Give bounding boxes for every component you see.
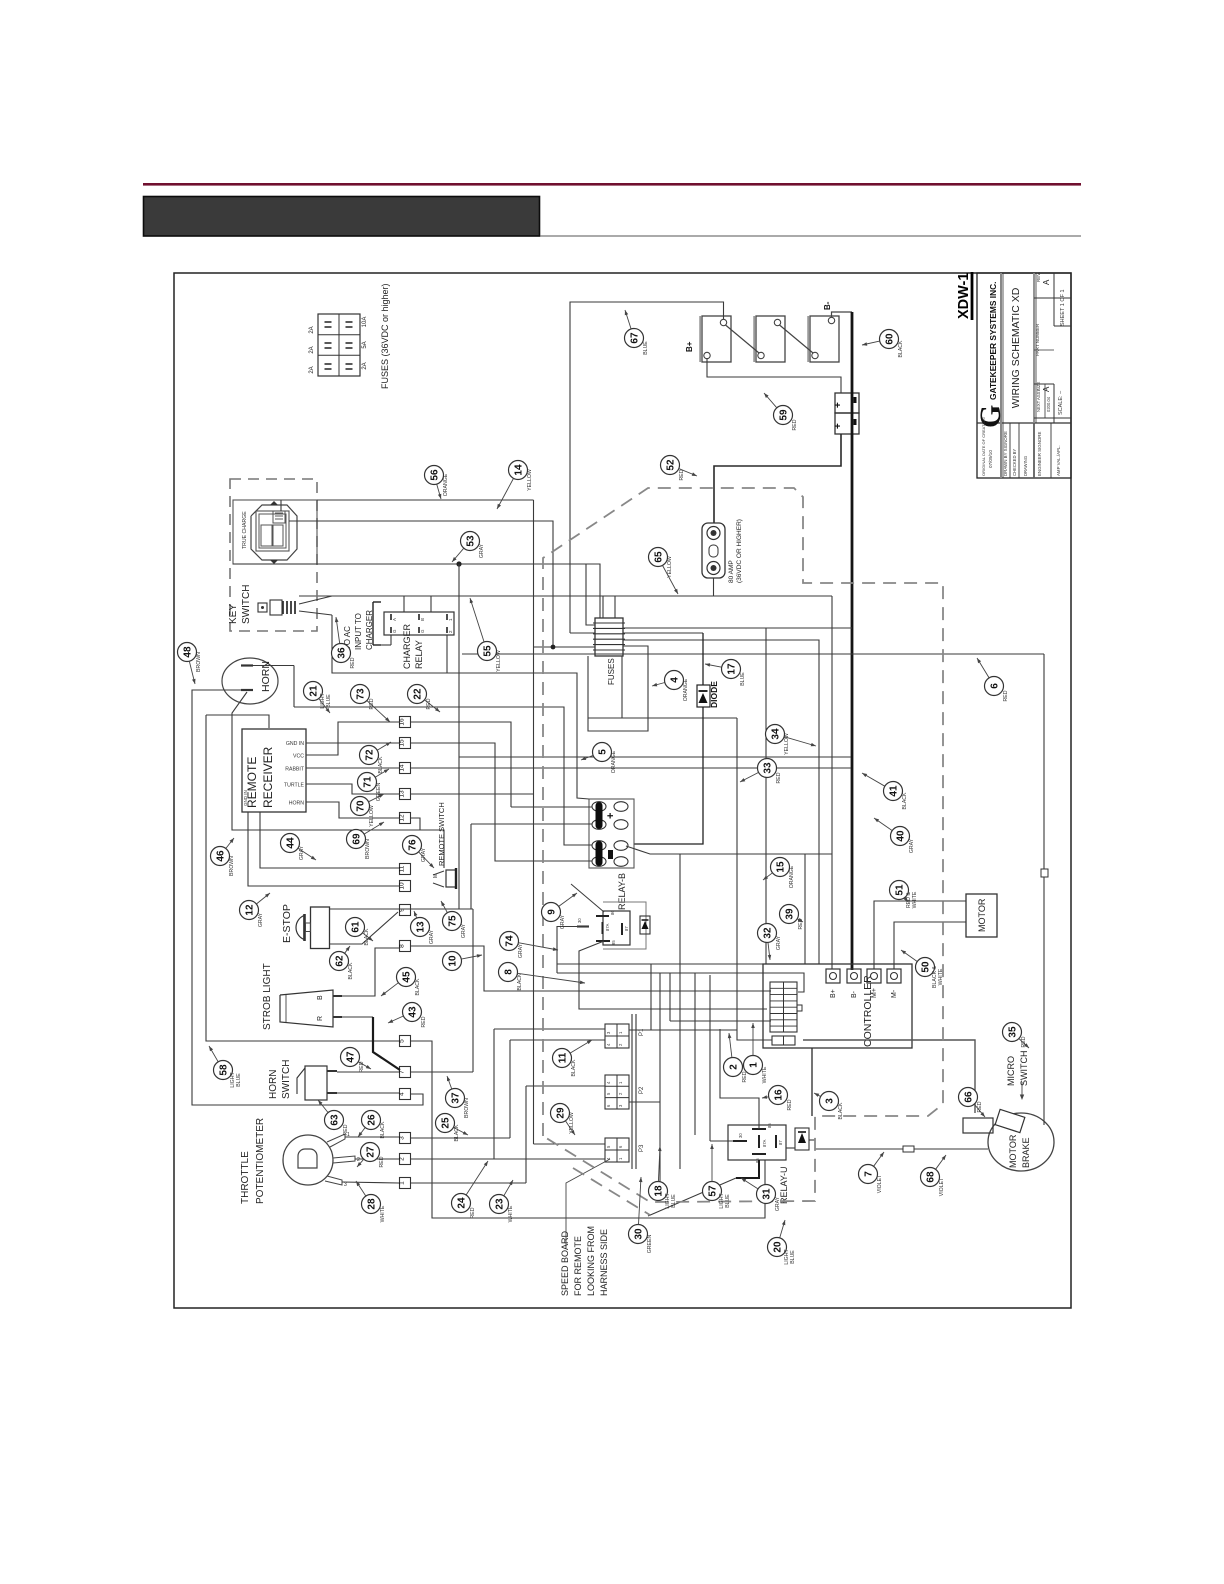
relay B enclosure xyxy=(603,902,646,949)
horn xyxy=(222,658,278,704)
svg-text:GND IN: GND IN xyxy=(243,790,248,806)
terminal 5 xyxy=(400,1036,411,1047)
svg-text:RED: RED xyxy=(792,419,798,430)
svg-text:B: B xyxy=(317,995,324,1000)
svg-text:76: 76 xyxy=(408,839,419,851)
svg-text:YELLOW: YELLOW xyxy=(369,805,375,827)
svg-text:G: G xyxy=(420,629,425,633)
svg-text:B-: B- xyxy=(851,990,858,998)
svg-text:+: + xyxy=(833,402,844,408)
svg-text:2A: 2A xyxy=(309,326,315,333)
svg-text:86: 86 xyxy=(767,1123,772,1128)
svg-text:07/09/10: 07/09/10 xyxy=(988,450,993,468)
svg-text:87A: 87A xyxy=(762,1139,767,1147)
label 21 xyxy=(304,682,323,701)
svg-text:17: 17 xyxy=(727,663,738,675)
svg-text:BLACK: BLACK xyxy=(348,962,354,980)
controller feed wires xyxy=(557,963,763,965)
svg-text:RED: RED xyxy=(470,1207,476,1218)
terminal 1 xyxy=(400,1178,411,1189)
svg-text:BLACK: BLACK xyxy=(380,1121,386,1139)
label 55 xyxy=(478,642,497,661)
svg-text:72: 72 xyxy=(365,749,376,761)
svg-text:BLACK: BLACK xyxy=(902,792,908,810)
svg-text:BROWN: BROWN xyxy=(464,1098,470,1118)
svg-text:THROTTLE: THROTTLE xyxy=(240,1151,251,1204)
svg-text:73: 73 xyxy=(356,688,367,700)
svg-text:BLACK: BLACK xyxy=(838,1102,844,1120)
controller box xyxy=(763,964,912,1048)
header dark box xyxy=(144,197,540,237)
svg-text:RED: RED xyxy=(787,1099,793,1110)
svg-text:P3: P3 xyxy=(639,1144,645,1152)
terminal 12 xyxy=(400,813,411,824)
svg-text:1: 1 xyxy=(399,1181,406,1185)
svg-text:32: 32 xyxy=(763,927,774,939)
svg-text:KEY: KEY xyxy=(228,604,239,624)
label 32 xyxy=(758,924,777,943)
svg-text:58: 58 xyxy=(219,1064,230,1076)
title block xyxy=(977,273,1071,478)
label 34 xyxy=(766,725,785,744)
label 60 xyxy=(880,330,899,349)
label 67 xyxy=(625,329,644,348)
label 3 xyxy=(820,1092,839,1111)
svg-text:YELLOW: YELLOW xyxy=(784,733,790,755)
label 11 xyxy=(553,1049,572,1068)
label 45 xyxy=(397,968,416,987)
svg-text:WHITE: WHITE xyxy=(380,1205,386,1222)
motor brake xyxy=(988,1113,1054,1171)
svg-text:HORN: HORN xyxy=(268,1070,279,1099)
label 14 xyxy=(509,461,528,480)
svg-text:53: 53 xyxy=(466,535,477,547)
label 26 xyxy=(362,1111,381,1130)
e-stop xyxy=(311,907,330,949)
label 30 xyxy=(629,1225,648,1244)
svg-text:GRAY: GRAY xyxy=(909,838,915,853)
svg-text:A: A xyxy=(392,618,397,621)
svg-text:BLACK: BLACK xyxy=(898,340,904,358)
B+ wire xyxy=(831,596,833,969)
svg-text:ORIGINAL DATE OF CREATION: ORIGINAL DATE OF CREATION xyxy=(981,417,986,476)
svg-text:26: 26 xyxy=(367,1114,378,1126)
label 16 xyxy=(769,1086,788,1105)
svg-text:HARNESS SIDE: HARNESS SIDE xyxy=(599,1229,609,1296)
charger relay xyxy=(384,612,454,635)
label 15 xyxy=(771,858,790,877)
svg-text:MICRO: MICRO xyxy=(1006,1056,1016,1086)
svg-text:10A: 10A xyxy=(362,317,368,328)
svg-text:0200.04: 0200.04 xyxy=(1046,396,1051,412)
svg-text:CONTROLLER: CONTROLLER xyxy=(862,975,874,1047)
svg-text:10: 10 xyxy=(448,955,459,967)
svg-text:28: 28 xyxy=(367,1198,378,1210)
svg-text:RED: RED xyxy=(1003,690,1009,701)
dashed boundary xyxy=(543,488,943,1202)
svg-text:GRAY: GRAY xyxy=(479,543,485,558)
svg-text:BLUE: BLUE xyxy=(236,1073,242,1087)
drawing frame xyxy=(174,273,1071,1308)
svg-text:20: 20 xyxy=(773,1241,784,1253)
svg-text:DRAWN BY SIGNORE: DRAWN BY SIGNORE xyxy=(1003,431,1008,476)
svg-text:BLACK: BLACK xyxy=(571,1059,577,1077)
svg-text:B-: B- xyxy=(823,301,832,310)
svg-text:41: 41 xyxy=(889,785,900,797)
box below fuses xyxy=(588,646,648,731)
key switch dashed enclosure xyxy=(230,479,317,631)
svg-text:52: 52 xyxy=(666,459,677,471)
svg-text:MOTOR: MOTOR xyxy=(1008,1134,1018,1168)
svg-text:12: 12 xyxy=(245,904,256,916)
label 35 xyxy=(1003,1023,1022,1042)
label 22 xyxy=(408,685,427,704)
svg-text:40: 40 xyxy=(896,830,907,842)
label 76 xyxy=(403,836,422,855)
label 44 xyxy=(281,834,300,853)
label 12 xyxy=(240,901,259,920)
svg-text:BLACK: BLACK xyxy=(517,973,523,991)
svg-text:3: 3 xyxy=(825,1098,836,1104)
svg-text:RED: RED xyxy=(421,1016,427,1027)
svg-text:WHITE: WHITE xyxy=(508,1205,514,1222)
pot wires xyxy=(345,1136,399,1138)
key switch wires xyxy=(332,596,404,612)
micro switch actuator xyxy=(995,1109,1025,1132)
true charge solid box xyxy=(233,500,317,564)
svg-text:1: 1 xyxy=(749,1062,760,1068)
svg-text:BRAKE: BRAKE xyxy=(1021,1137,1031,1168)
svg-text:8: 8 xyxy=(399,944,406,948)
svg-text:62: 62 xyxy=(335,955,346,967)
svg-text:75: 75 xyxy=(448,915,459,927)
terminal 11 xyxy=(400,864,411,875)
bus from junction down xyxy=(458,564,460,909)
remote switch xyxy=(446,870,456,887)
svg-text:YELLOW: YELLOW xyxy=(527,469,533,491)
svg-text:BLUE: BLUE xyxy=(740,672,746,686)
svg-text:35: 35 xyxy=(1008,1026,1019,1038)
svg-text:BLACK: BLACK xyxy=(454,1124,460,1142)
svg-text:15: 15 xyxy=(399,739,406,747)
svg-text:61: 61 xyxy=(351,921,362,933)
e-stop wires xyxy=(330,912,398,944)
label 47 xyxy=(341,1048,360,1067)
svg-text:3: 3 xyxy=(344,1182,347,1188)
svg-text:FOR REMOTE: FOR REMOTE xyxy=(573,1236,583,1296)
terminal 8 xyxy=(400,941,411,952)
svg-text:23: 23 xyxy=(495,1198,506,1210)
svg-text:M+: M+ xyxy=(871,988,878,998)
svg-text:ORANGE: ORANGE xyxy=(683,678,689,701)
svg-text:7: 7 xyxy=(864,1171,875,1177)
svg-text:21: 21 xyxy=(309,685,320,697)
strobe light xyxy=(280,990,333,1027)
svg-text:RED: RED xyxy=(379,1156,385,1167)
label 70 xyxy=(351,797,370,816)
diode D1 xyxy=(697,685,710,707)
controller right wire to micro switch xyxy=(803,1040,975,1113)
label 41 xyxy=(884,782,903,801)
label 25 xyxy=(436,1114,455,1133)
label 69 xyxy=(347,830,366,849)
svg-text:M: M xyxy=(433,874,439,878)
wire 67 blue battery to left bus xyxy=(570,302,724,633)
svg-text:RELAY-B: RELAY-B xyxy=(617,873,627,910)
label 18 xyxy=(649,1182,668,1201)
svg-text:BLUE: BLUE xyxy=(671,1194,677,1208)
svg-text:44: 44 xyxy=(286,837,297,849)
svg-text:4: 4 xyxy=(670,677,681,683)
bus lines left of fuses xyxy=(534,646,596,648)
svg-text:WIRING SCHEMATIC XD: WIRING SCHEMATIC XD xyxy=(1010,287,1022,408)
svg-text:4: 4 xyxy=(399,1092,406,1096)
svg-text:SWITCH: SWITCH xyxy=(1019,1051,1029,1087)
connector P2 xyxy=(605,1075,629,1109)
relay B wires xyxy=(557,927,589,974)
svg-text:85: 85 xyxy=(611,940,616,945)
horn switch xyxy=(305,1066,327,1100)
svg-text:13: 13 xyxy=(399,790,406,798)
thick B- wire xyxy=(832,312,853,317)
battery series links xyxy=(726,325,760,353)
cell 2 xyxy=(592,841,606,851)
svg-text:A: A xyxy=(1042,386,1051,392)
svg-text:DIODE: DIODE xyxy=(709,681,719,708)
svg-text:VIOLET: VIOLET xyxy=(939,1177,945,1196)
cell 1 xyxy=(592,802,606,812)
true charge wires xyxy=(280,500,282,511)
svg-text:HORN: HORN xyxy=(289,801,305,807)
svg-text:GRAY: GRAY xyxy=(518,943,524,958)
svg-text:9: 9 xyxy=(399,908,406,912)
label 62 xyxy=(330,952,349,971)
svg-text:TURTLE: TURTLE xyxy=(284,783,305,789)
svg-text:BLACK: BLACK xyxy=(415,978,421,996)
svg-text:FUSES: FUSES xyxy=(607,658,616,685)
svg-text:51: 51 xyxy=(895,884,906,896)
svg-text:74: 74 xyxy=(505,935,516,947)
svg-text:CHARGER: CHARGER xyxy=(365,610,374,650)
svg-text:REMOTE SWITCH: REMOTE SWITCH xyxy=(437,802,446,866)
svg-text:B+: B+ xyxy=(685,341,694,352)
svg-text:E-STOP: E-STOP xyxy=(281,904,293,943)
svg-text:G: G xyxy=(392,629,397,633)
terminal 3 xyxy=(400,1133,411,1144)
label 66 xyxy=(959,1088,978,1107)
svg-text:11: 11 xyxy=(399,865,406,872)
horn wires xyxy=(253,665,294,667)
svg-text:GREEN: GREEN xyxy=(647,1235,653,1254)
svg-text:PART NUMBER: PART NUMBER xyxy=(1035,323,1040,356)
svg-text:BLACK: BLACK xyxy=(378,756,384,774)
svg-text:BROWN: BROWN xyxy=(229,856,235,876)
label 50 xyxy=(916,958,935,977)
svg-text:ENGINEER SIGNORE: ENGINEER SIGNORE xyxy=(1037,432,1042,476)
svg-text:18: 18 xyxy=(654,1185,665,1197)
svg-text:55: 55 xyxy=(483,645,494,657)
wire 53 gray xyxy=(233,564,600,618)
label 5 xyxy=(593,743,612,762)
label 40 xyxy=(891,827,910,846)
terminal 2 xyxy=(400,1154,411,1165)
svg-text:2A: 2A xyxy=(309,366,315,373)
svg-text:16: 16 xyxy=(399,718,406,726)
header underline xyxy=(540,235,1081,237)
throttle potentiometer xyxy=(283,1135,333,1185)
svg-text:ORANGE: ORANGE xyxy=(611,750,617,773)
cell wires xyxy=(511,806,592,808)
svg-text:NEXT ASSY.: NEXT ASSY. xyxy=(1036,388,1041,412)
svg-text:86: 86 xyxy=(610,910,615,915)
svg-text:5: 5 xyxy=(598,749,609,755)
label 73 xyxy=(351,685,370,704)
terminal 16 xyxy=(400,717,411,728)
svg-text:69: 69 xyxy=(352,833,363,845)
speed board wires right xyxy=(629,1101,660,1103)
relay U diode xyxy=(795,1128,809,1150)
label 75 xyxy=(443,912,462,931)
svg-text:46: 46 xyxy=(216,850,227,862)
terminal 10 xyxy=(400,881,411,892)
svg-text:G: G xyxy=(974,405,1007,428)
horn switch wires xyxy=(337,1071,399,1073)
label 20 xyxy=(768,1238,787,1257)
svg-text:48: 48 xyxy=(183,646,194,658)
svg-text:GRAY: GRAY xyxy=(461,923,467,938)
svg-text:GRAY: GRAY xyxy=(560,914,566,929)
svg-text:16: 16 xyxy=(774,1089,785,1101)
label 23 xyxy=(490,1195,509,1214)
svg-text:CHECKED BY: CHECKED BY xyxy=(1012,449,1017,476)
svg-text:31: 31 xyxy=(762,1188,773,1200)
svg-text:BROWN: BROWN xyxy=(196,652,202,672)
svg-text:YELLOW: YELLOW xyxy=(496,650,502,672)
svg-text:65: 65 xyxy=(654,551,665,563)
svg-text:B: B xyxy=(420,618,425,621)
svg-text:WHITE: WHITE xyxy=(762,1066,768,1083)
receiver wires xyxy=(306,742,399,744)
svg-text:RED: RED xyxy=(350,657,356,668)
svg-text:14: 14 xyxy=(514,464,525,476)
terminal 9 xyxy=(400,905,411,916)
svg-text:87: 87 xyxy=(624,926,629,931)
terminal right-side wires xyxy=(411,767,851,769)
svg-text:2A: 2A xyxy=(362,362,368,369)
svg-text:RELAY: RELAY xyxy=(414,640,424,669)
svg-text:M-: M- xyxy=(891,989,898,998)
svg-text:P1: P1 xyxy=(639,1028,645,1036)
svg-text:11: 11 xyxy=(558,1052,569,1063)
svg-text:BLUE: BLUE xyxy=(643,341,649,355)
controller pin block xyxy=(770,982,797,1032)
svg-text:WHITE: WHITE xyxy=(938,968,944,985)
label 68 xyxy=(921,1168,940,1187)
svg-text:25: 25 xyxy=(441,1117,452,1129)
svg-text:63: 63 xyxy=(330,1114,341,1126)
svg-text:13: 13 xyxy=(416,921,427,933)
svg-text:VCC: VCC xyxy=(293,754,304,760)
svg-text:47: 47 xyxy=(346,1051,357,1063)
svg-text:TRUE CHARGE: TRUE CHARGE xyxy=(242,511,248,549)
svg-text:GRAY: GRAY xyxy=(429,929,435,944)
svg-text:LOOKING FROM: LOOKING FROM xyxy=(586,1226,596,1296)
label 39 xyxy=(780,905,799,924)
svg-text:SCALE: –: SCALE: – xyxy=(1058,390,1064,415)
label 4 xyxy=(665,671,684,690)
svg-text:SPEED BOARD: SPEED BOARD xyxy=(560,1230,570,1296)
svg-text:SWITCH: SWITCH xyxy=(281,1060,292,1099)
connector P1 xyxy=(605,1024,629,1048)
label 13 xyxy=(411,918,430,937)
connector P3 xyxy=(605,1138,629,1162)
true charge meter xyxy=(251,505,297,560)
svg-text:30: 30 xyxy=(577,918,582,923)
wires into fuses top xyxy=(602,596,604,618)
fuse block 2A/5A/10A xyxy=(318,314,360,376)
label 6 xyxy=(985,677,1004,696)
label 61 xyxy=(346,918,365,937)
svg-text:87A: 87A xyxy=(605,923,610,931)
label 27 xyxy=(361,1143,380,1162)
svg-text:10: 10 xyxy=(399,882,406,890)
svg-text:15: 15 xyxy=(776,861,787,873)
svg-text:12: 12 xyxy=(399,814,406,822)
svg-text:BLUE: BLUE xyxy=(725,1194,731,1208)
svg-text:43: 43 xyxy=(408,1006,419,1018)
battery 3 xyxy=(810,316,839,362)
svg-text:87: 87 xyxy=(778,1140,783,1145)
svg-text:+: + xyxy=(833,423,844,429)
label 1 xyxy=(744,1056,763,1075)
svg-text:GATEKEEPER SYSTEMS INC.: GATEKEEPER SYSTEMS INC. xyxy=(988,281,998,400)
svg-text:FUSES (36VDC or higher): FUSES (36VDC or higher) xyxy=(380,283,390,389)
wire 52 connector to breaker xyxy=(714,434,841,523)
svg-text:67: 67 xyxy=(630,332,641,344)
relay U wires xyxy=(720,1029,759,1129)
wire breaker to fuse bus xyxy=(299,578,714,596)
label 43 xyxy=(403,1003,422,1022)
label 17 xyxy=(722,660,741,679)
svg-text:ORANGE: ORANGE xyxy=(789,865,795,888)
svg-text:3: 3 xyxy=(399,1136,406,1140)
svg-text:6: 6 xyxy=(990,683,1001,689)
svg-text:GRAY: GRAY xyxy=(775,1196,781,1211)
svg-text:GRAY: GRAY xyxy=(776,935,782,950)
svg-text:33: 33 xyxy=(763,762,774,774)
wire B+ to connector xyxy=(707,358,841,393)
svg-text:WHITE: WHITE xyxy=(912,891,918,908)
80A circuit breaker xyxy=(702,523,725,578)
motor wires xyxy=(874,901,966,969)
svg-text:SWITCH: SWITCH xyxy=(241,585,252,624)
relay U xyxy=(728,1125,786,1160)
terminal 14 xyxy=(400,763,411,774)
svg-text:2: 2 xyxy=(357,1157,360,1163)
svg-text:RED: RED xyxy=(776,772,782,783)
svg-text:2: 2 xyxy=(399,1157,406,1161)
svg-text:P2: P2 xyxy=(639,1086,645,1094)
battery 2 xyxy=(756,316,785,362)
label 10 xyxy=(443,952,462,971)
svg-text:RABBIT: RABBIT xyxy=(285,767,305,773)
relay B battery cells box xyxy=(589,799,634,868)
label 71 xyxy=(358,773,377,792)
svg-text:36: 36 xyxy=(337,647,348,659)
label 51 xyxy=(890,881,909,900)
svg-text:2A: 2A xyxy=(309,346,315,353)
svg-text:5A: 5A xyxy=(362,341,368,348)
